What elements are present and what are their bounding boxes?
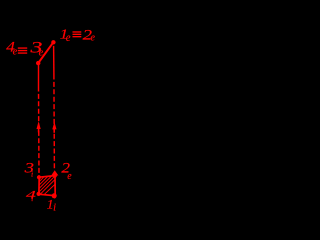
svg-text:e: e (39, 46, 44, 58)
svg-text:i: i (31, 170, 33, 178)
svg-text:i: i (31, 195, 33, 203)
svg-text:e: e (66, 32, 71, 44)
svg-text:e: e (90, 31, 95, 43)
svg-text:e: e (67, 171, 72, 182)
svg-text:i: i (53, 202, 56, 213)
svg-text:e: e (13, 46, 18, 58)
